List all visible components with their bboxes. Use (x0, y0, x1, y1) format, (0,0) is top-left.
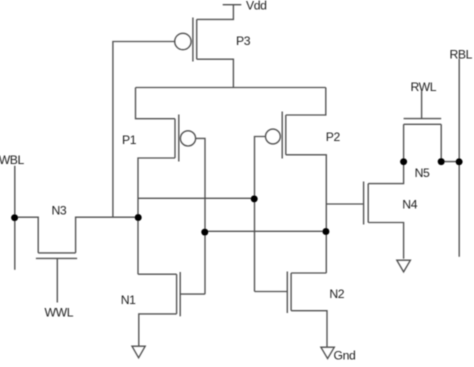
junction dot cross couple 1 right (251, 195, 258, 202)
wire N5 left terminal (403, 124, 405, 161)
wire N4 source to ground (368, 223, 403, 259)
wire N5 right to RBL (441, 161, 459, 163)
wire rail to P1 source (136, 88, 176, 119)
wire Vdd to P3 source (197, 5, 234, 20)
junction dot N5 right (438, 158, 445, 165)
transistor P2 (PMOS) (266, 112, 286, 159)
bitline RBL vertical (458, 59, 460, 257)
svg-text:P2: P2 (326, 130, 341, 144)
transistor P3 (PMOS) (175, 18, 197, 62)
transistor N2 (NMOS) (287, 272, 291, 314)
wire WBL to N3 left terminal (15, 217, 39, 253)
junction dot cross couple 2 left (201, 229, 208, 236)
wire node Q to P2/N2 gate (cross couple 1) (138, 197, 255, 199)
junction dot node Q / N3 (135, 214, 142, 221)
wire top supply rail (136, 87, 326, 89)
wire P2 gate down to N2 gate (255, 137, 266, 292)
wire rail to P2 source (286, 88, 326, 116)
wire N4 drain to N5 left (368, 161, 403, 183)
svg-text:N3: N3 (52, 204, 67, 218)
svg-text:N4: N4 (402, 197, 417, 211)
svg-text:P3: P3 (236, 34, 251, 48)
wire P3 drain stub (197, 59, 234, 87)
ground symbol under N1 (132, 346, 145, 358)
wire P1 gate down to N1 gate (196, 138, 205, 294)
svg-text:N1: N1 (121, 293, 136, 307)
wire N2 drain stub (291, 272, 326, 274)
svg-text:N2: N2 (329, 287, 344, 301)
wire N3 gate to WWL (56, 258, 58, 302)
transistor N4 (NMOS) (364, 182, 369, 225)
bitline WBL vertical (14, 166, 16, 270)
svg-text:P1: P1 (122, 133, 137, 147)
transistor N1 (NMOS) (177, 272, 181, 316)
wire P2 drain / node QB vertical (286, 155, 327, 273)
transistor N5 (NMOS horizontal) (404, 119, 442, 125)
svg-text:RBL: RBL (450, 48, 473, 62)
svg-text:Vdd: Vdd (246, 0, 267, 13)
junction dot RBL (456, 158, 463, 165)
wire N2 source to ground (291, 311, 327, 347)
wordline RWL gate wire (421, 91, 423, 119)
svg-text:N5: N5 (415, 166, 430, 180)
wire node QB to N4 gate (326, 203, 363, 205)
ground symbol under N2 (Gnd) (321, 347, 334, 358)
svg-text:WBL: WBL (0, 153, 25, 167)
junction dot node QB / cross couple 2 (322, 228, 329, 235)
wire P1 drain / node Q vertical (138, 158, 175, 274)
transistor N3 (NMOS horizontal) (36, 253, 77, 259)
svg-text:WWL: WWL (45, 306, 74, 320)
junction dot WBL/N3 (11, 214, 18, 221)
wire N1 source to ground (139, 314, 177, 346)
wire N1 gate stub (180, 293, 205, 295)
transistor P1 (PMOS) (175, 115, 196, 162)
power symbol Vdd bar (223, 4, 242, 6)
wire P3 gate to N3/node-Q wire (113, 42, 175, 218)
wire node QB to P1/N1 gate (cross couple 2) (205, 230, 326, 232)
svg-text:RWL: RWL (411, 80, 437, 94)
wire N2 gate stub (255, 291, 288, 293)
ground symbol under N4 (397, 260, 411, 272)
svg-text:Gnd: Gnd (334, 349, 356, 363)
wire N3 right terminal to node Q (76, 217, 139, 253)
wire N5 right terminal (440, 124, 442, 161)
junction dot N5 left / N4 drain (400, 158, 407, 165)
wire N1 drain stub (138, 273, 177, 275)
